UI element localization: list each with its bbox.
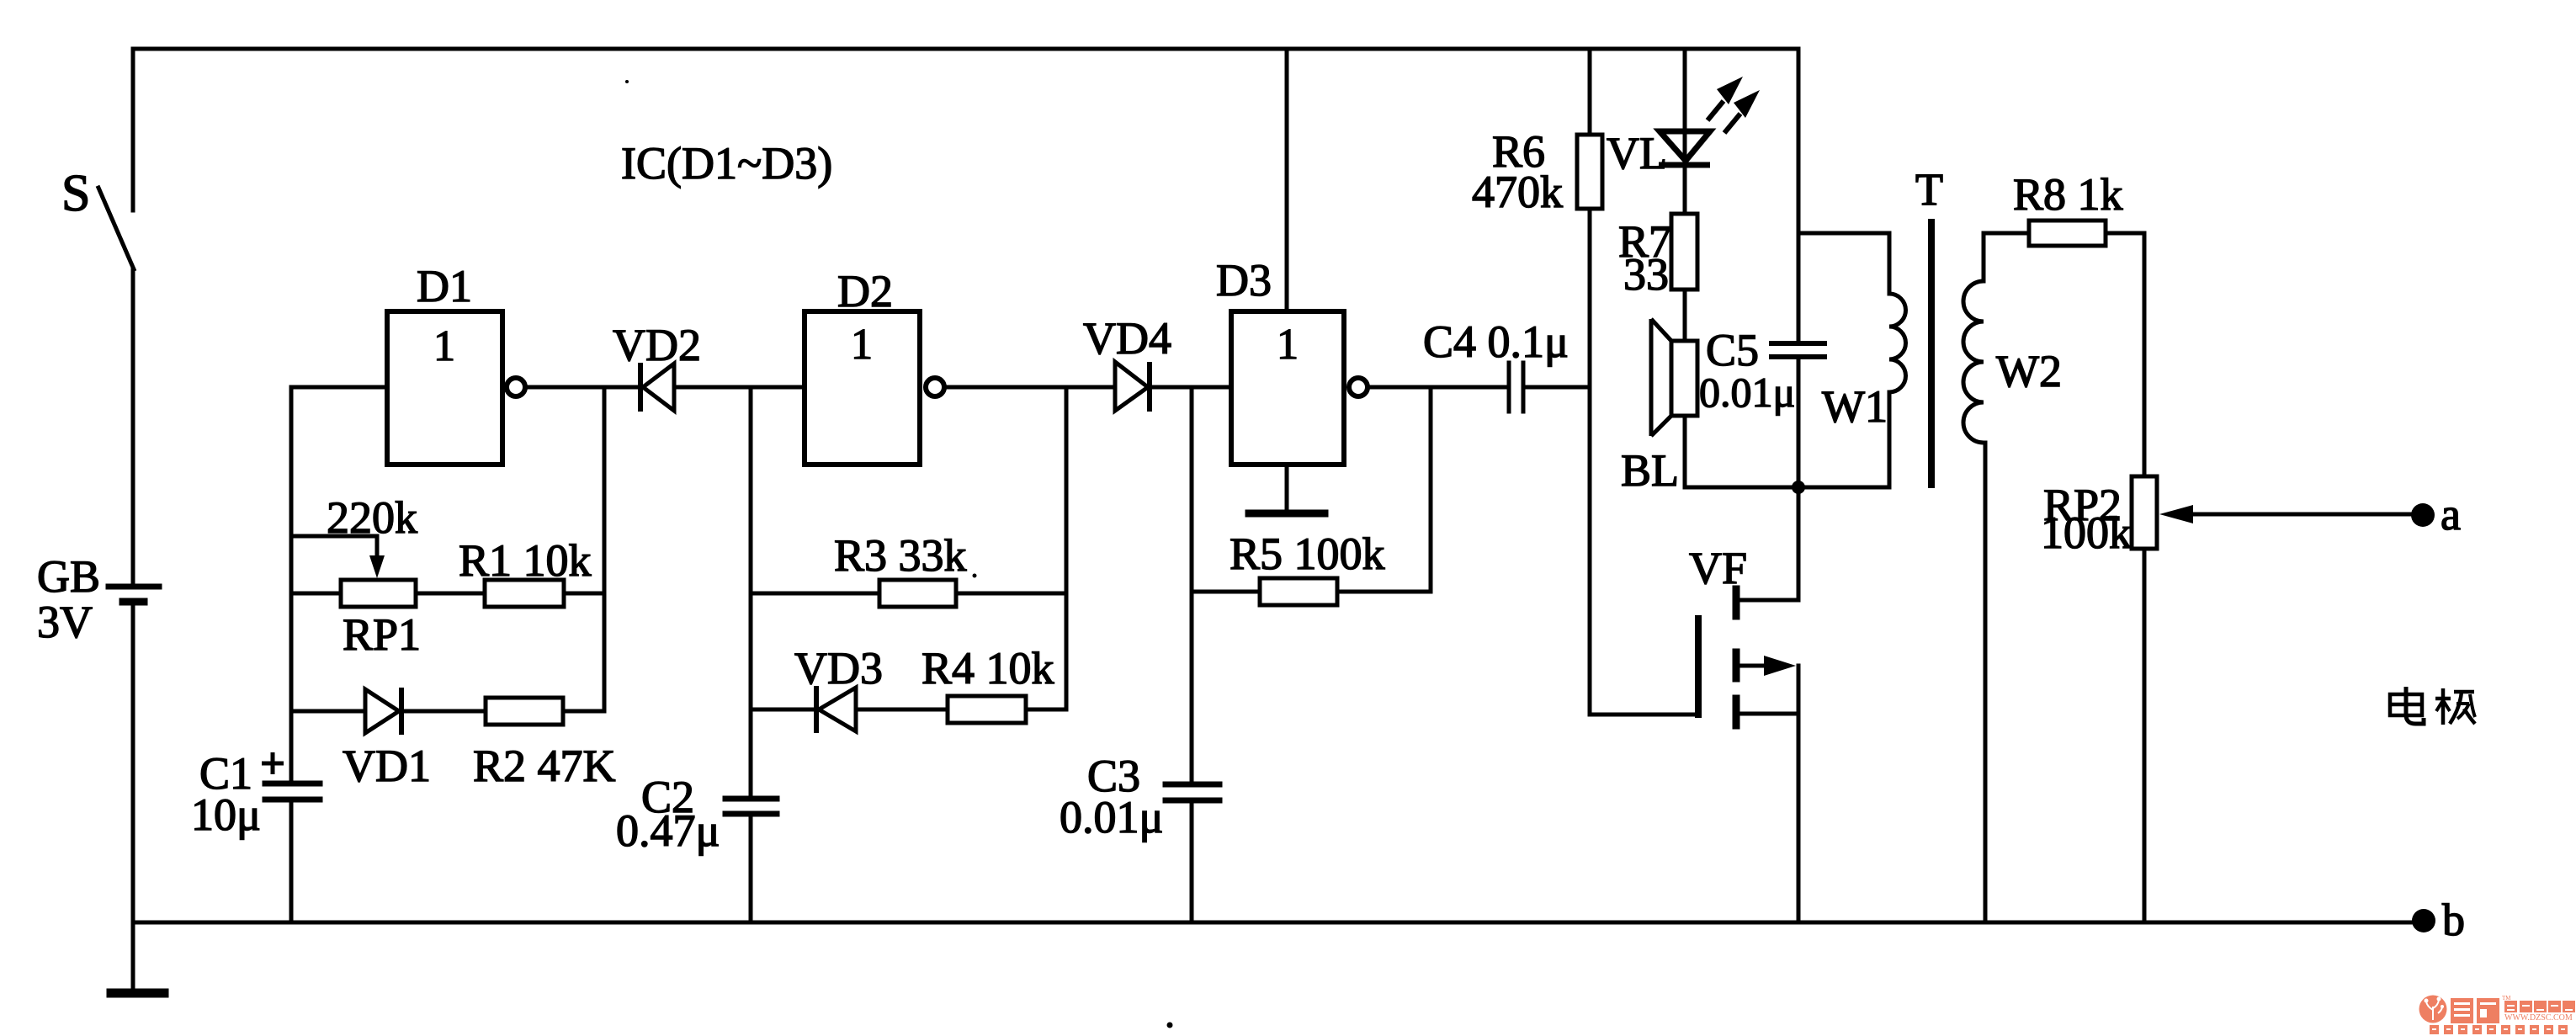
svg-text:33: 33 (1623, 249, 1669, 300)
svg-text:R1 10k: R1 10k (459, 535, 592, 586)
svg-text:VD3: VD3 (794, 643, 883, 693)
svg-text:VL: VL (1607, 128, 1667, 178)
svg-text:0.01μ: 0.01μ (1060, 792, 1163, 842)
svg-text:b: b (2442, 895, 2465, 945)
svg-text:VD4: VD4 (1083, 313, 1171, 364)
svg-text:1: 1 (433, 322, 455, 370)
svg-text:WWW.DZSC.COM: WWW.DZSC.COM (2504, 1013, 2573, 1023)
svg-text:R5 100k: R5 100k (1230, 529, 1385, 579)
svg-text:D2: D2 (837, 266, 893, 316)
svg-text:W2: W2 (1996, 346, 2062, 396)
svg-text:0.01μ: 0.01μ (1699, 369, 1795, 416)
svg-text:C4 0.1μ: C4 0.1μ (1423, 316, 1569, 367)
svg-text:R4 10k: R4 10k (922, 643, 1054, 693)
svg-text:10μ: 10μ (191, 789, 261, 840)
svg-text:R8 1k: R8 1k (2013, 169, 2123, 220)
svg-text:TM: TM (2502, 995, 2511, 1001)
svg-text:T: T (1915, 164, 1943, 215)
svg-text:BL: BL (1621, 445, 1679, 496)
svg-text:R2 47K: R2 47K (473, 741, 616, 791)
svg-text:3V: 3V (37, 597, 93, 647)
svg-text:S: S (61, 165, 90, 222)
svg-text:1: 1 (851, 321, 873, 369)
svg-text:100k: 100k (2041, 507, 2132, 558)
svg-text:W1: W1 (1822, 381, 1888, 432)
svg-text:D3: D3 (1216, 255, 1272, 305)
svg-text:0.47μ: 0.47μ (616, 805, 720, 856)
svg-text:470k: 470k (1472, 167, 1563, 217)
svg-text:VD1: VD1 (343, 741, 431, 791)
svg-text:RP1: RP1 (343, 609, 421, 660)
svg-text:D1: D1 (417, 261, 472, 311)
svg-text:1: 1 (1277, 321, 1299, 369)
svg-text:VD2: VD2 (613, 320, 701, 370)
svg-text:VF: VF (1689, 543, 1747, 593)
svg-text:a: a (2441, 489, 2461, 539)
svg-text:R3 33k: R3 33k (834, 530, 967, 581)
svg-text:GB: GB (37, 551, 100, 602)
svg-text:C5: C5 (1706, 325, 1759, 375)
svg-text:220k: 220k (327, 492, 417, 543)
svg-text:IC(D1~D3): IC(D1~D3) (621, 138, 832, 189)
